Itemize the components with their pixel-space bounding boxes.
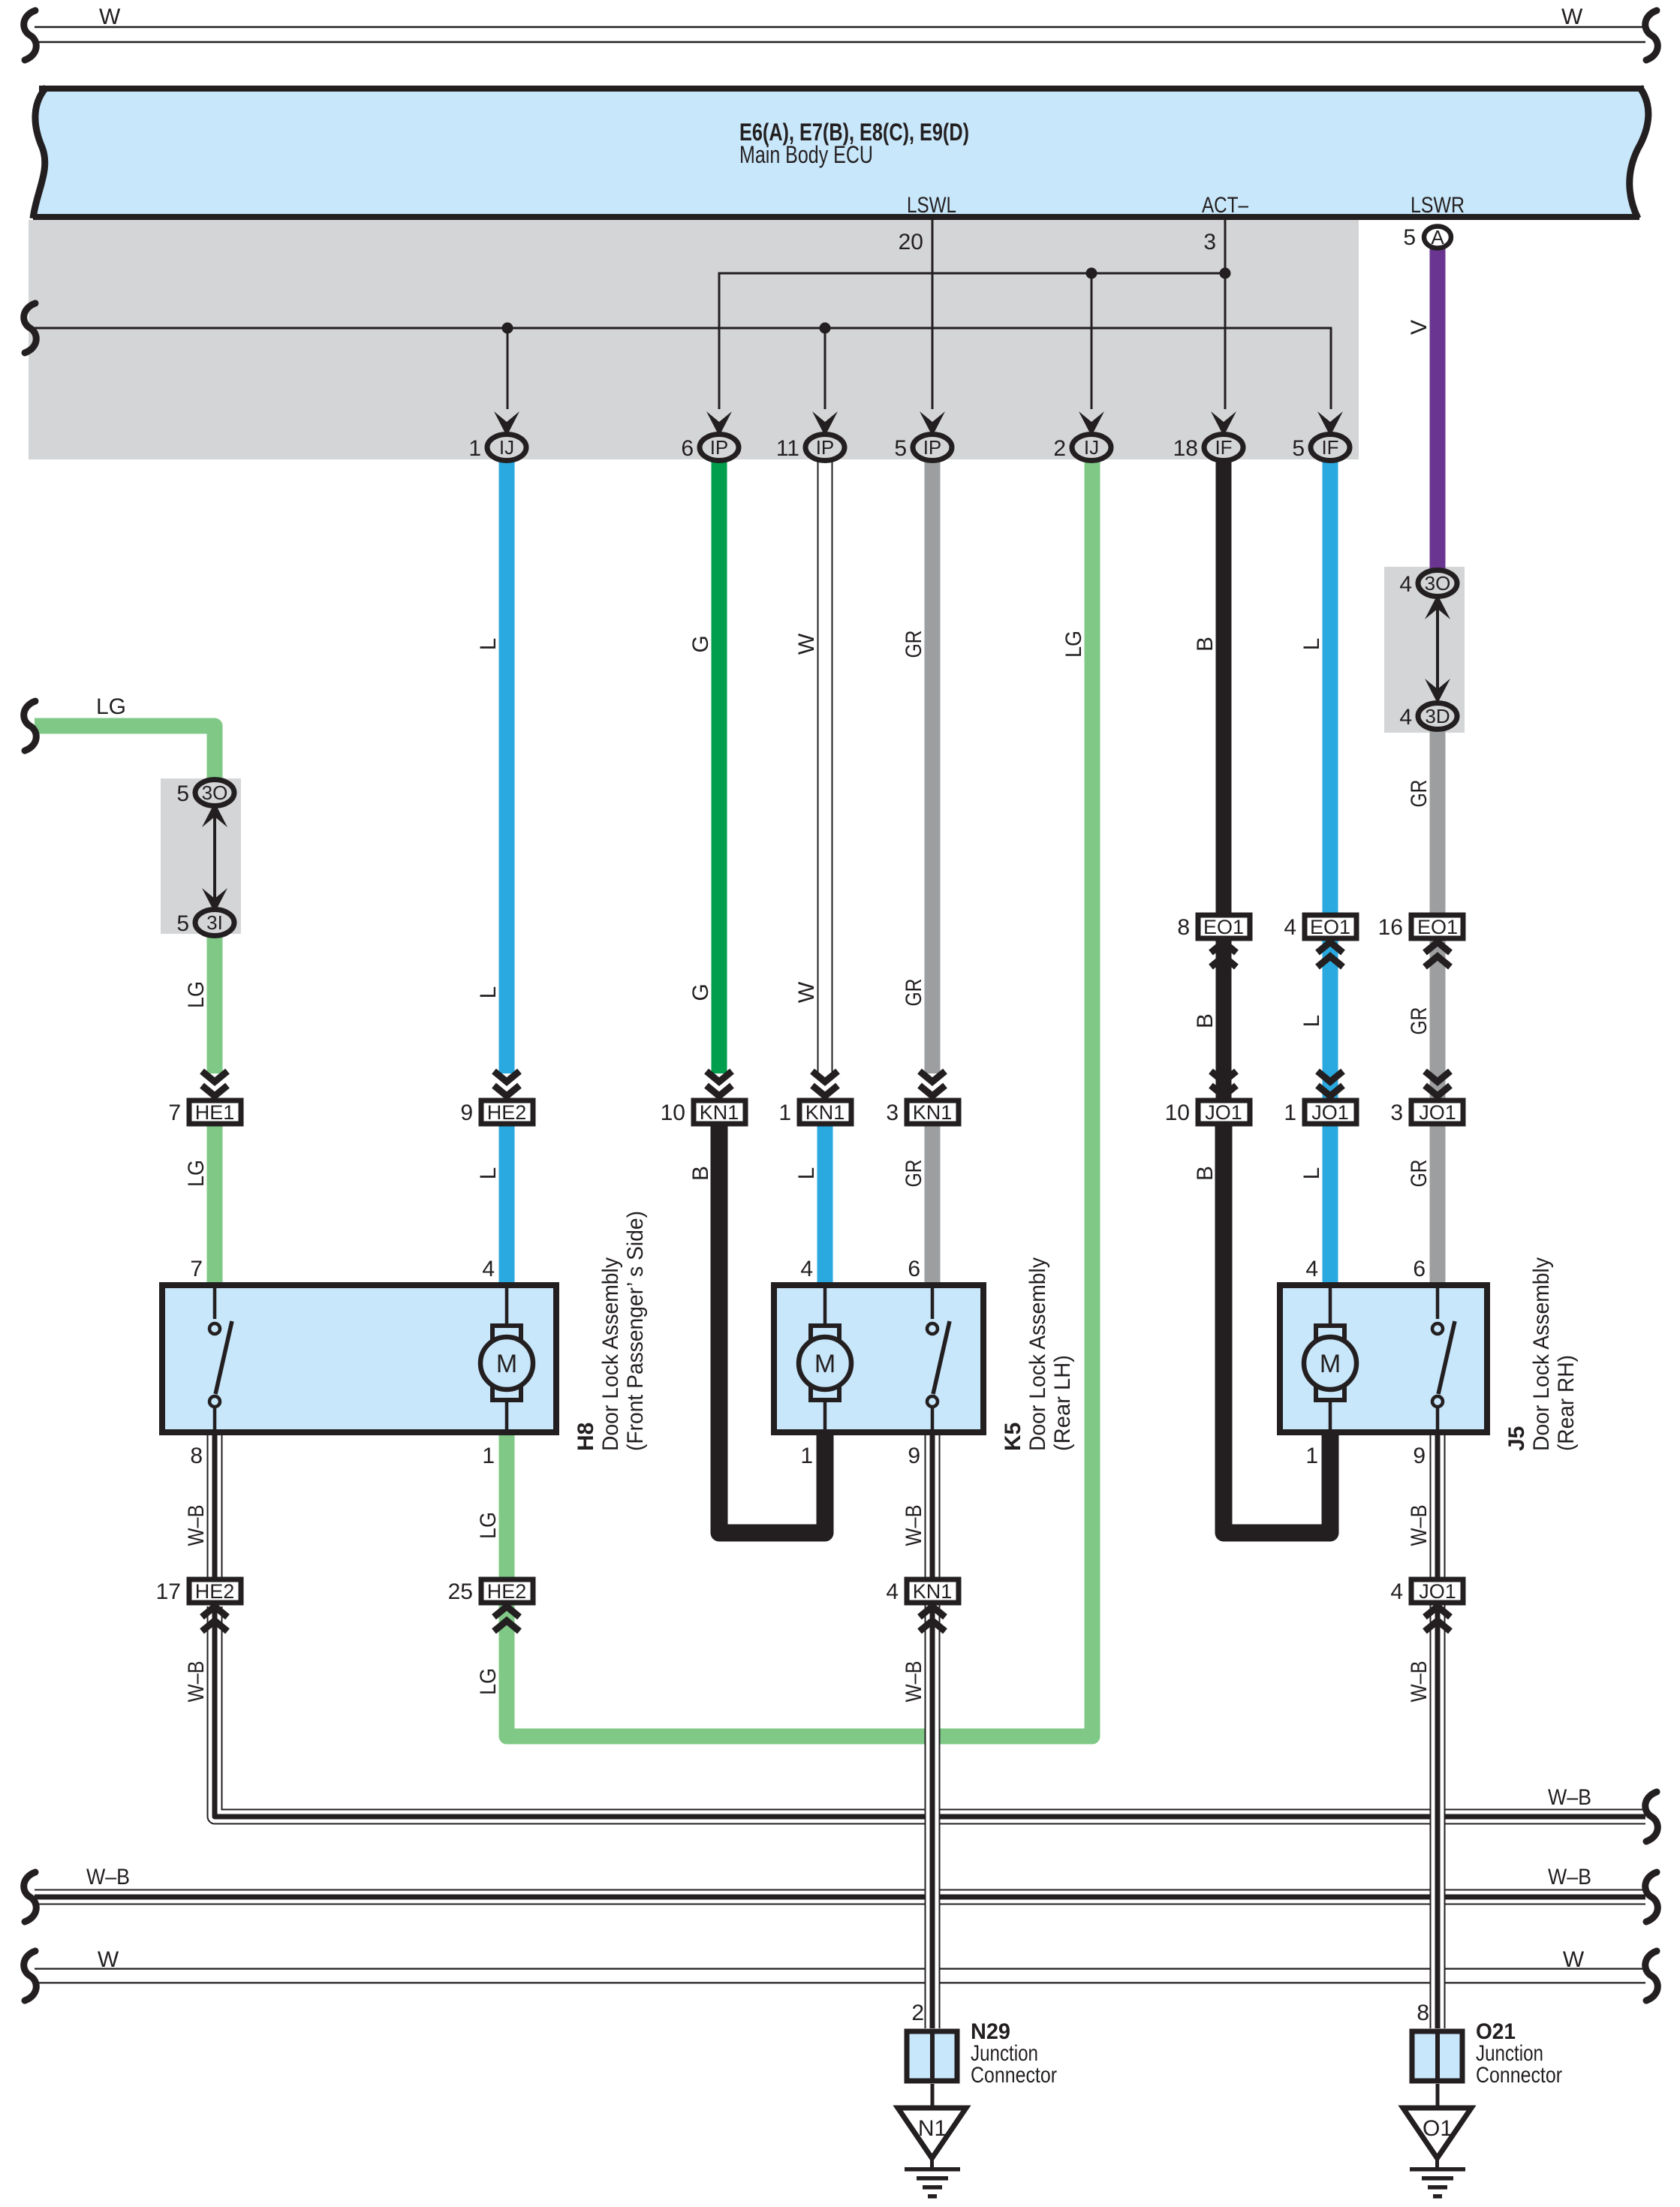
wire W-B from J5 pin 9 to JO1-4 — [1430, 1434, 1446, 1579]
H8 labels — [574, 1211, 648, 1451]
connector oval 3O pin 5 (left) — [176, 780, 234, 807]
junction connector O21 — [1412, 2019, 1562, 2088]
svg-text:6: 6 — [681, 436, 694, 461]
svg-text:HE2: HE2 — [487, 1101, 527, 1124]
chevrons above KN1-3 — [920, 1071, 945, 1096]
connector box KN1 pin 3 — [886, 1100, 959, 1125]
svg-text:L: L — [476, 986, 501, 999]
svg-text:4: 4 — [1390, 1579, 1403, 1604]
chevrons above JO1-1 — [1317, 1071, 1343, 1096]
wire L from HE2-9 to H8 pin 4 — [499, 1126, 515, 1284]
svg-text:4: 4 — [886, 1579, 899, 1604]
svg-text:3D: 3D — [1425, 705, 1450, 727]
ground triangle N1 — [898, 2108, 966, 2158]
svg-text:Connector: Connector — [1476, 2063, 1562, 2088]
wire GR from KN1-3 to K5 pin 6 — [925, 1126, 941, 1284]
svg-text:Connector: Connector — [971, 2063, 1057, 2088]
svg-text:B: B — [1193, 637, 1218, 652]
svg-text:LG: LG — [184, 981, 209, 1008]
wire color labels column x675 — [476, 638, 501, 1695]
svg-text:7: 7 — [168, 1100, 181, 1125]
ground triangle O1 — [1403, 2108, 1471, 2158]
wire color labels column x1772 — [1299, 638, 1324, 1180]
wire color labels column x1915 — [1407, 320, 1432, 1703]
svg-text:8: 8 — [1417, 2001, 1429, 2025]
svg-text:Door Lock Assembly: Door Lock Assembly — [598, 1257, 623, 1451]
chevrons below KN1-4 — [920, 1606, 945, 1631]
svg-text:4: 4 — [1305, 1257, 1318, 1281]
svg-text:1: 1 — [1284, 1100, 1296, 1125]
svg-text:LG: LG — [184, 1160, 209, 1187]
svg-text:LG: LG — [476, 1512, 501, 1539]
wire GR from 3D to EO1-16 — [1430, 730, 1446, 916]
wire color labels column x1242 — [902, 631, 926, 1703]
chevrons below HE2-25 — [494, 1606, 519, 1631]
connector box HE2 pin 17 — [156, 1579, 241, 1604]
svg-text:LSWL: LSWL — [907, 193, 956, 218]
svg-text:J5: J5 — [1504, 1426, 1529, 1451]
connector oval 3I pin 5 (left) — [176, 910, 234, 937]
svg-text:W–B: W–B — [1407, 1505, 1432, 1546]
wire W-B bus 1 (from HE2-17 corner to right) — [215, 1606, 1645, 1817]
wire L from IF-5 to EO1-4 — [1323, 458, 1338, 916]
chevrons above KN1-1 — [812, 1071, 838, 1096]
svg-text:3O: 3O — [1425, 572, 1451, 595]
svg-text:LG: LG — [476, 1668, 501, 1695]
svg-text:10: 10 — [1165, 1100, 1190, 1125]
svg-text:JO1: JO1 — [1311, 1101, 1349, 1124]
gray box around 3O/3D pass-through (right) — [1384, 567, 1465, 733]
wire W-B from H8 pin 8 to HE2-17 — [207, 1434, 223, 1579]
break symbol left of net A — [24, 303, 37, 353]
svg-text:L: L — [476, 1167, 501, 1180]
wire branch down to IP-11 — [824, 328, 826, 409]
Main Body ECU box E6(A), E7(B), E8(C), E9(D) — [33, 87, 1648, 218]
svg-text:4: 4 — [1399, 705, 1412, 730]
arrow down into 3D (right) — [1425, 679, 1450, 703]
svg-text:17: 17 — [156, 1579, 181, 1604]
svg-text:1: 1 — [800, 1444, 813, 1468]
wire GR from EO1-16 to JO1-3 — [1430, 938, 1446, 1100]
connector box JO1 pin 3 — [1390, 1100, 1463, 1125]
svg-text:KN1: KN1 — [913, 1580, 953, 1603]
wire B thick from KN1-10 to K5 pin 1 — [719, 1126, 825, 1533]
connector box JO1 pin 4 — [1390, 1579, 1463, 1604]
break symbol right of W bus — [1645, 1951, 1658, 2001]
junction dot on ACT- line — [1220, 268, 1231, 279]
connector oval IF pin 5 — [1292, 435, 1350, 462]
wire B thick from JO1-10 to J5 pin 1 — [1224, 1126, 1330, 1533]
wire branch down to IJ-2 — [1091, 273, 1093, 409]
svg-text:IJ: IJ — [499, 436, 514, 459]
svg-text:N1: N1 — [918, 2116, 947, 2141]
svg-text:9: 9 — [1413, 1444, 1426, 1468]
connector oval IP pin 11 — [776, 435, 845, 462]
ground symbol O1 — [1410, 2158, 1465, 2199]
svg-text:W: W — [99, 5, 121, 29]
connector box HE2 pin 25 — [448, 1579, 533, 1604]
svg-text:1: 1 — [482, 1444, 495, 1468]
wire W (top bus) — [35, 27, 1645, 42]
svg-text:KN1: KN1 — [913, 1101, 953, 1124]
svg-text:L: L — [1299, 638, 1324, 651]
break symbol left of W bus — [24, 1951, 37, 2001]
H8 pin numbers — [190, 1257, 495, 1468]
arrow up into 3O (right) — [1425, 595, 1450, 619]
door lock assembly J5 box — [1280, 1285, 1487, 1432]
svg-text:4: 4 — [1399, 572, 1412, 597]
chevrons below EO1-8 — [1211, 942, 1236, 967]
svg-text:20: 20 — [899, 230, 923, 254]
svg-text:W–B: W–B — [902, 1661, 926, 1703]
connector box KN1 pin 10 — [661, 1100, 745, 1125]
K5 door lock motor M — [799, 1285, 851, 1432]
connector box HE2 pin 9 — [460, 1100, 533, 1125]
connector oval IP pin 5 — [894, 435, 952, 462]
wire GR from IP-5 to KN1-3 — [925, 458, 941, 1073]
wire color labels column x1099 — [794, 633, 819, 1179]
svg-text:3: 3 — [886, 1100, 899, 1125]
junction connector N29 — [907, 2019, 1057, 2088]
wire W from IP-11 to KN1-1 — [817, 458, 833, 1073]
connector box EO1 pin 8 — [1177, 915, 1250, 940]
H8 door lock motor M — [480, 1285, 533, 1432]
svg-text:Main Body ECU: Main Body ECU — [739, 141, 873, 168]
svg-text:W: W — [794, 981, 819, 1003]
wire net ACT- pin3 — [1224, 220, 1227, 409]
wire LG from HE1-7 to H8 pin 7 — [207, 1126, 223, 1284]
arrow up into 3O (left) — [202, 802, 227, 827]
svg-text:8: 8 — [190, 1444, 203, 1468]
svg-text:KN1: KN1 — [700, 1101, 739, 1124]
connector box EO1 pin 16 — [1378, 915, 1463, 940]
connector oval IJ pin 1 — [468, 435, 526, 462]
svg-text:G: G — [688, 983, 713, 1001]
wire L from IJ-1 to HE2-9 — [499, 458, 515, 1073]
svg-text:W: W — [98, 1947, 119, 1972]
chevrons above HE2-9 — [494, 1071, 519, 1096]
svg-text:M: M — [496, 1350, 517, 1378]
svg-text:EO1: EO1 — [1310, 916, 1350, 938]
svg-text:W–B: W–B — [184, 1661, 209, 1703]
gray shield band under ECU — [29, 220, 1359, 459]
connector box EO1 pin 4 — [1284, 915, 1356, 940]
connector box JO1 pin 1 — [1284, 1100, 1356, 1125]
svg-text:6: 6 — [1413, 1257, 1426, 1281]
svg-text:EO1: EO1 — [1417, 916, 1458, 938]
break symbol left of W-B bus 2 — [24, 1872, 37, 1922]
svg-text:3: 3 — [1390, 1100, 1403, 1125]
wire net A horizontal (from page left to IF-5) — [35, 328, 1331, 409]
wire from O21 to ground O1 — [1436, 2084, 1440, 2108]
junction dot branch IJ-1 — [502, 323, 513, 334]
break symbol right of top W bus — [1645, 11, 1658, 60]
svg-text:1: 1 — [468, 436, 481, 461]
svg-text:4: 4 — [800, 1257, 813, 1281]
svg-text:(Front Passenger’ s Side): (Front Passenger’ s Side) — [623, 1211, 648, 1451]
connector box JO1 pin 10 — [1165, 1100, 1250, 1125]
wire W-B bus 2 — [35, 1889, 1645, 1905]
svg-text:O1: O1 — [1423, 2116, 1453, 2141]
svg-text:ACT–: ACT– — [1202, 193, 1248, 218]
svg-text:EO1: EO1 — [1203, 916, 1244, 938]
wire B from IF-18 to EO1-8 — [1216, 458, 1232, 916]
svg-text:5: 5 — [1292, 436, 1305, 461]
wire branch down to IJ-1 — [507, 328, 509, 409]
J5 labels — [1504, 1257, 1579, 1451]
chevrons above KN1-10 — [706, 1071, 732, 1096]
K5 door courtesy switch — [927, 1285, 950, 1432]
wire GR from JO1-3 to J5 pin 6 — [1430, 1126, 1446, 1284]
svg-text:6: 6 — [908, 1257, 920, 1281]
chevrons below JO1-4 — [1425, 1606, 1450, 1631]
svg-text:2: 2 — [1053, 436, 1066, 461]
J5 door courtesy switch — [1432, 1285, 1455, 1432]
pass-through left: line between 3O and 3I — [213, 803, 216, 912]
svg-text:GR: GR — [1407, 780, 1432, 808]
wire LG horizontal from page left to 3O (left) — [35, 726, 215, 781]
svg-text:LSWR: LSWR — [1411, 193, 1465, 218]
connector box HE1 pin 7 — [168, 1100, 241, 1125]
svg-text:W–B: W–B — [184, 1505, 209, 1546]
arrows into oval connector row — [494, 411, 519, 436]
svg-text:GR: GR — [902, 631, 926, 658]
wire L from KN1-1 to K5 pin 4 — [817, 1126, 833, 1284]
svg-text:L: L — [1299, 1167, 1324, 1180]
gray box around 3O/3I pass-through (left) — [161, 778, 241, 934]
svg-text:JO1: JO1 — [1205, 1101, 1242, 1124]
svg-text:5: 5 — [176, 911, 189, 936]
door lock assembly H8 box — [162, 1285, 556, 1432]
svg-text:G: G — [688, 635, 713, 652]
svg-text:IP: IP — [710, 436, 729, 459]
svg-text:1: 1 — [778, 1100, 791, 1125]
door lock assembly K5 box — [774, 1285, 983, 1432]
svg-text:W: W — [1563, 1947, 1585, 1972]
svg-text:Door Lock Assembly: Door Lock Assembly — [1529, 1257, 1554, 1451]
svg-text:GR: GR — [1407, 1160, 1432, 1188]
break symbol left of LG wire — [24, 701, 37, 751]
svg-text:Door Lock Assembly: Door Lock Assembly — [1025, 1257, 1050, 1451]
svg-text:H8: H8 — [574, 1423, 598, 1451]
chevrons below HE2-17 — [202, 1606, 227, 1631]
svg-text:5: 5 — [1403, 225, 1416, 250]
wire W-B from JO1-4 to junction O21 — [1430, 1603, 1446, 2028]
K5 pin numbers — [800, 1257, 920, 1468]
svg-text:8: 8 — [1177, 915, 1190, 940]
wire LG from 3I to HE1-7 — [207, 932, 223, 1073]
svg-text:W–B: W–B — [86, 1865, 130, 1889]
H8 door courtesy switch — [209, 1285, 232, 1432]
break symbol left of top W bus — [24, 11, 37, 60]
svg-text:11: 11 — [776, 436, 799, 461]
junction dot branch IJ-2 — [1086, 268, 1097, 279]
svg-text:JO1: JO1 — [1419, 1101, 1456, 1124]
svg-text:25: 25 — [448, 1579, 473, 1604]
svg-text:1: 1 — [1305, 1444, 1318, 1468]
svg-text:KN1: KN1 — [805, 1101, 845, 1124]
svg-text:GR: GR — [902, 979, 926, 1007]
wire W-B from K5 pin 9 to KN1-4 — [925, 1434, 941, 1579]
svg-text:3: 3 — [1203, 230, 1216, 254]
svg-text:9: 9 — [460, 1100, 473, 1125]
wire net B horizontal (ACT- branch to IP-6, IJ-2) — [719, 273, 1225, 409]
wire W-B from KN1-4 to junction N29 — [925, 1603, 941, 2028]
svg-text:K5: K5 — [1001, 1423, 1025, 1451]
svg-text:GR: GR — [1407, 1007, 1432, 1035]
chevrons above JO1-3 — [1425, 1071, 1450, 1096]
svg-text:JO1: JO1 — [1419, 1580, 1456, 1603]
wire color labels column x1630 — [1193, 637, 1218, 1181]
svg-text:B: B — [1193, 1013, 1218, 1028]
break symbol right of W-B bus 2 — [1645, 1872, 1658, 1922]
svg-text:W–B: W–B — [1548, 1865, 1591, 1889]
svg-text:IF: IF — [1321, 436, 1338, 459]
wire net LSWL pin20 — [932, 220, 934, 409]
svg-text:W–B: W–B — [902, 1505, 926, 1546]
chevrons below EO1-16 — [1425, 942, 1450, 967]
pass-through right: line between 3O and 3D — [1436, 595, 1439, 703]
svg-text:W: W — [1561, 5, 1583, 29]
svg-text:GR: GR — [902, 1160, 926, 1188]
chevrons above HE1-7 — [202, 1071, 227, 1096]
wire V from ECU A-5 to 3O — [1430, 248, 1446, 571]
svg-text:L: L — [1299, 1015, 1324, 1028]
svg-text:7: 7 — [190, 1257, 203, 1281]
svg-text:5: 5 — [894, 436, 907, 461]
svg-text:3I: 3I — [206, 911, 223, 934]
svg-text:HE2: HE2 — [195, 1580, 235, 1603]
wire LG long from IJ-2 down and left to HE2-25 — [507, 458, 1092, 1736]
svg-text:M: M — [1320, 1350, 1341, 1378]
connector box KN1 pin 1 — [778, 1100, 851, 1125]
connector oval IP pin 6 — [681, 435, 739, 462]
wire LG from H8 pin 1 to HE2-25 — [499, 1434, 515, 1579]
K5 labels — [1001, 1257, 1075, 1451]
svg-text:IP: IP — [816, 436, 835, 459]
connector box KN1 pin 4 — [886, 1579, 959, 1604]
connector oval 3O pin 4 (right) — [1399, 571, 1457, 598]
svg-text:HE2: HE2 — [487, 1580, 527, 1603]
svg-text:IF: IF — [1215, 436, 1232, 459]
svg-text:HE1: HE1 — [195, 1101, 235, 1124]
connector oval 3D pin 4 (right) — [1399, 703, 1457, 730]
connector oval IJ pin 2 — [1053, 435, 1111, 462]
wire color labels column x958 — [688, 635, 713, 1181]
svg-text:B: B — [688, 1166, 713, 1181]
svg-text:4: 4 — [1284, 915, 1296, 940]
svg-text:IJ: IJ — [1084, 436, 1099, 459]
svg-text:LG: LG — [1061, 631, 1086, 658]
svg-text:10: 10 — [661, 1100, 685, 1125]
svg-text:2: 2 — [911, 2001, 924, 2025]
svg-text:A: A — [1431, 226, 1444, 248]
wire from N29 to ground N1 — [931, 2084, 935, 2108]
svg-text:9: 9 — [908, 1444, 920, 1468]
svg-text:M: M — [814, 1350, 835, 1378]
connector oval IF pin 18 — [1173, 435, 1243, 462]
arrow down into 3I (left) — [202, 888, 227, 913]
svg-text:W–B: W–B — [1407, 1661, 1432, 1703]
chevrons below EO1-4 — [1317, 942, 1343, 967]
svg-text:B: B — [1193, 1166, 1218, 1181]
wire B from EO1-8 to JO1-10 — [1216, 938, 1232, 1100]
svg-text:L: L — [476, 638, 501, 651]
break symbol right of W-B bus 1 — [1645, 1792, 1658, 1841]
svg-text:L: L — [794, 1167, 819, 1180]
J5 door lock motor M — [1304, 1285, 1356, 1432]
wire W bus (bottom) — [35, 1968, 1645, 1984]
svg-text:18: 18 — [1173, 436, 1198, 461]
svg-text:16: 16 — [1378, 915, 1403, 940]
chevrons above JO1-10 — [1211, 1071, 1236, 1096]
svg-text:3O: 3O — [202, 781, 228, 804]
wire L from EO1-4 to JO1-1 — [1323, 938, 1338, 1100]
svg-text:V: V — [1407, 320, 1432, 335]
wire L from JO1-1 to J5 pin 4 — [1323, 1126, 1338, 1284]
svg-text:(Rear LH): (Rear LH) — [1050, 1355, 1075, 1451]
svg-text:W: W — [794, 633, 819, 655]
svg-text:4: 4 — [482, 1257, 495, 1281]
wire color labels column x286 — [184, 981, 209, 1703]
svg-text:IP: IP — [923, 436, 942, 459]
wire G from IP-6 to KN1-10 — [712, 458, 727, 1073]
connector oval A pin 5 at ECU LSWR — [1403, 225, 1451, 250]
svg-text:LG: LG — [96, 694, 126, 719]
svg-text:W–B: W–B — [1548, 1785, 1591, 1810]
svg-text:5: 5 — [176, 781, 189, 806]
svg-text:(Rear RH): (Rear RH) — [1554, 1355, 1579, 1451]
junction dot branch IP-11 — [820, 323, 831, 334]
ground symbol N1 — [905, 2158, 960, 2199]
J5 pin numbers — [1305, 1257, 1426, 1468]
